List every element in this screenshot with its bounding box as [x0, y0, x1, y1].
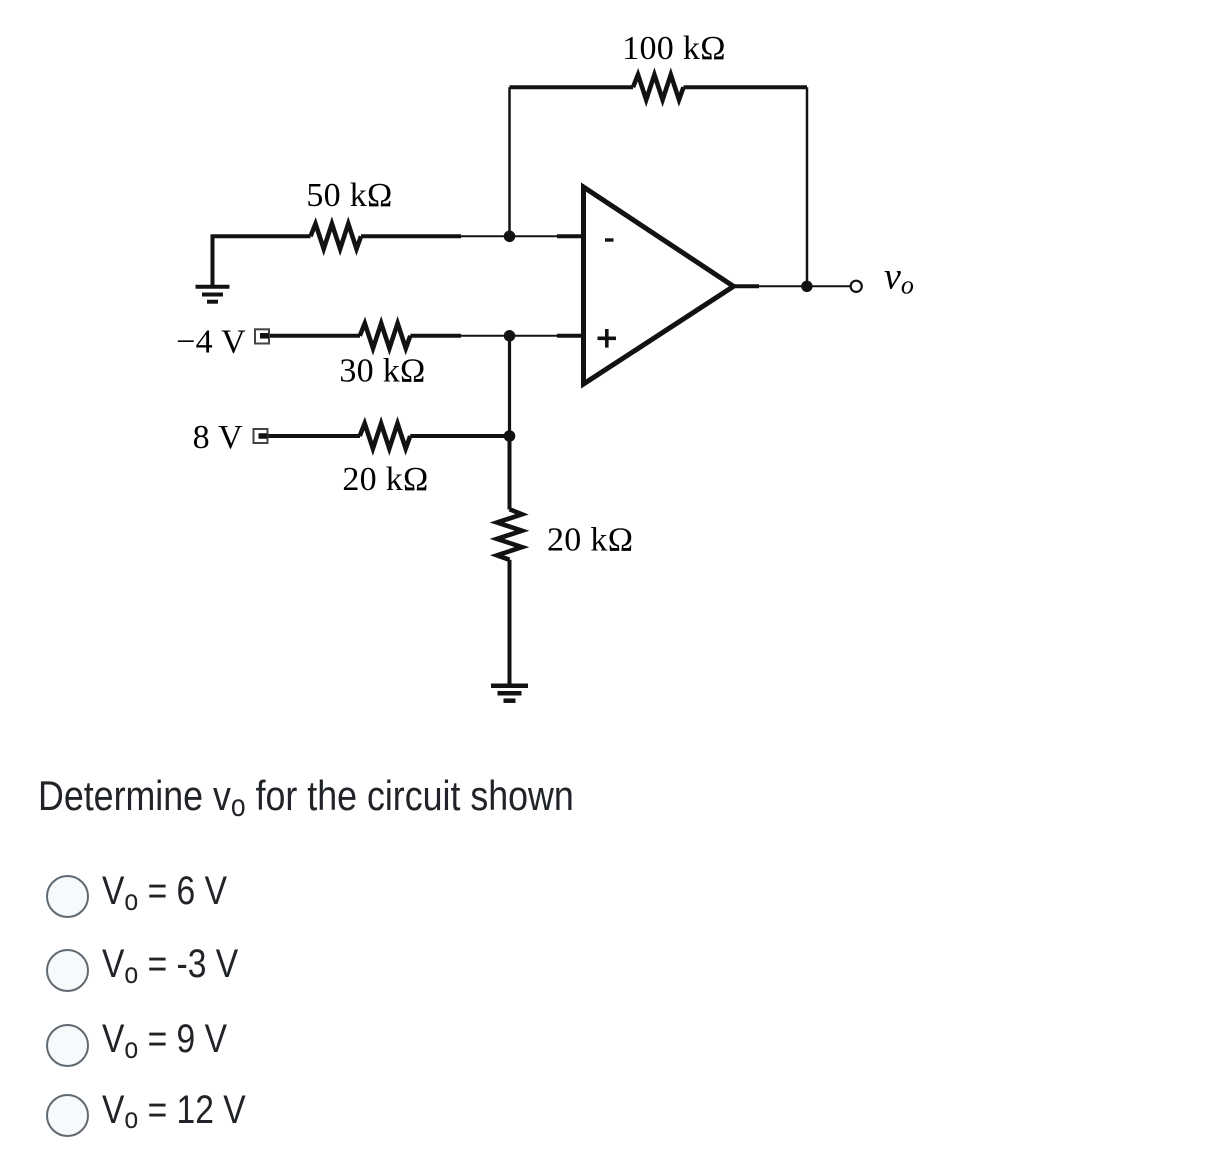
wire: 20k shunt resistor to ground — [508, 560, 512, 685]
wire: feedback top right segment — [684, 85, 808, 89]
option 3 radio — [46, 1024, 89, 1067]
svg-text:100 kΩ: 100 kΩ — [622, 30, 726, 67]
option 2 text: Vo = -3 V — [102, 942, 238, 987]
wire: feedback right leg down to output node — [806, 87, 809, 286]
option 1 radio — [46, 875, 89, 918]
wire: feedback top left segment — [510, 85, 634, 89]
wire: 50k resistor to inverting input of op-amp — [361, 234, 461, 238]
wire: node A (non-inverting) down to node B — [508, 336, 511, 436]
wire: output thin segment to terminal — [759, 285, 851, 287]
svg-text:20 kΩ: 20 kΩ — [342, 461, 428, 498]
option 4 radio — [46, 1094, 89, 1137]
wire: op-amp output — [734, 284, 760, 288]
resistor R3 20 k&#937; (series with 8 V) — [360, 424, 411, 449]
svg-text:20 kΩ: 20 kΩ — [547, 522, 633, 559]
svg-text:−4 V: −4 V — [176, 324, 246, 361]
node: output junction — [801, 281, 812, 292]
node B: 8V/20k junction — [504, 430, 516, 442]
option 1 text: Vo = 6 V — [102, 869, 227, 914]
terminal: output open circle — [851, 281, 862, 292]
resistor R_f 100 k&#937; — [633, 75, 684, 100]
wire: inverting input stub at op-amp — [557, 234, 584, 238]
ground symbol (left, at 50k input) — [196, 287, 230, 302]
node: inverting input junction — [504, 231, 516, 243]
svg-text:50 kΩ: 50 kΩ — [306, 177, 392, 214]
ground symbol (bottom, under shunt resistor) — [491, 686, 528, 701]
option 3 text: Vo = 9 V — [102, 1017, 227, 1062]
question text — [38, 772, 574, 820]
op-amp inverting input marker (-) — [605, 238, 614, 241]
wire: -4 V terminal to 30k resistor — [260, 334, 361, 338]
option 4 text: Vo = 12 V — [102, 1088, 246, 1133]
op-amp U1 — [584, 187, 734, 384]
terminal: 8 V source port — [254, 429, 268, 443]
resistor R2 30 k&#937; — [360, 323, 411, 348]
resistor R1 50 k&#937; — [311, 224, 362, 249]
svg-text:vo: vo — [884, 256, 914, 300]
wire: ground corner to 50k resistor — [213, 236, 311, 285]
op-amp non-inverting input marker (+) — [598, 336, 617, 340]
wire: inverting node thin segment — [461, 235, 557, 237]
wire: 20k resistor to node B — [410, 434, 509, 438]
wire: 30k resistor to non-inverting input of op-amp — [410, 334, 461, 338]
wire: non-inverting input stub at op-amp — [557, 334, 584, 338]
wire: feedback left leg (inverting node up to feedback) — [508, 87, 511, 236]
node A: non-inverting input junction — [504, 330, 516, 342]
wire: non-inverting node thin segment — [461, 335, 557, 337]
svg-text:8 V: 8 V — [193, 419, 243, 456]
wire: node B down to 20k shunt resistor — [508, 436, 512, 510]
terminal: -4 V source port — [255, 329, 269, 343]
wire: 8 V terminal to 20k resistor — [260, 434, 361, 438]
option 2 radio — [46, 949, 89, 992]
svg-text:30 kΩ: 30 kΩ — [339, 352, 425, 389]
resistor R4 20 k&#937; (shunt to ground) — [497, 509, 522, 560]
